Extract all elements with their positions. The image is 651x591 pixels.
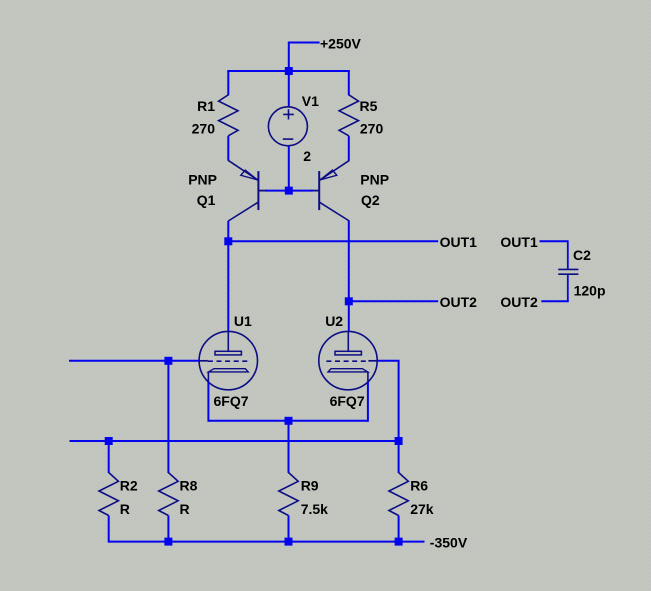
resistor R8 (159, 473, 178, 516)
node junction bottom rail / R9 (285, 538, 293, 546)
wire R5 bottom lead (348, 136, 350, 161)
triode U1 (199, 331, 257, 389)
svg-text:OUT1: OUT1 (440, 234, 478, 250)
svg-text:+250V: +250V (320, 35, 362, 51)
wire bottom rail (109, 541, 425, 543)
wire OUT1 rail (228, 240, 438, 242)
node junction bottom rail / R8 (164, 538, 172, 546)
wire V1 top lead (288, 71, 290, 108)
wire cathode rail (208, 420, 368, 422)
transistor Q2 (311, 160, 349, 221)
svg-text:Q2: Q2 (361, 192, 380, 208)
capacitor C2 top lead (567, 240, 569, 268)
node junction bottom rail / R6 (395, 538, 403, 546)
wire U2 grid lead (377, 360, 398, 442)
svg-text:120p: 120p (574, 283, 606, 299)
wire V1 bottom lead (288, 146, 290, 191)
svg-text:OUT2: OUT2 (500, 294, 538, 310)
svg-text:PNP: PNP (360, 171, 389, 187)
node junction middle rail / R6 (395, 437, 403, 445)
resistor R6 (389, 473, 408, 516)
capacitor C2 (558, 269, 578, 274)
wire R6 top lead (398, 441, 400, 473)
wire U1 anode lead (227, 241, 229, 332)
svg-text:U1: U1 (234, 313, 252, 329)
svg-text:R5: R5 (360, 98, 378, 114)
wire R8 top lead (167, 361, 169, 473)
svg-text:R: R (180, 501, 190, 517)
wire OUT1 to C2 (540, 240, 568, 242)
svg-text:OUT2: OUT2 (440, 294, 478, 310)
wire R1 top lead (227, 71, 229, 95)
wire base rail Q1-V1-Q2 (265, 190, 313, 192)
transistor Q1 emitter arrow (241, 170, 257, 180)
wire R9 bottom lead (288, 516, 290, 542)
svg-text:R1: R1 (197, 98, 215, 114)
wire U1 cathode lead (207, 382, 209, 422)
resistor R5 (339, 95, 358, 136)
svg-text:R8: R8 (180, 478, 198, 494)
svg-text:6FQ7: 6FQ7 (330, 393, 365, 409)
wire top rail (227, 70, 349, 72)
node +250V wire stub (289, 42, 320, 72)
svg-text:270: 270 (192, 121, 216, 137)
wire R9 top lead (288, 421, 290, 473)
wire R2 bottom lead (108, 516, 110, 543)
wire R2 top lead (108, 441, 110, 473)
svg-text:7.5k: 7.5k (301, 501, 328, 517)
resistor R1 (219, 95, 238, 136)
svg-text:6FQ7: 6FQ7 (214, 393, 249, 409)
svg-text:V1: V1 (302, 93, 319, 109)
capacitor C2 bottom lead (567, 275, 569, 301)
voltage source V1 (268, 107, 307, 146)
svg-text:R2: R2 (120, 478, 138, 494)
svg-text:C2: C2 (573, 247, 591, 263)
wire C2 to OUT2 (541, 300, 569, 302)
wire grid rail to U1 (69, 360, 199, 362)
wire R1 bottom lead (227, 136, 229, 161)
node junction grid rail / R8 (164, 357, 172, 365)
node junction Q2 collector / OUT2 / U2 anode (345, 297, 353, 305)
wire R5 top lead (348, 71, 350, 95)
resistor R2 (99, 473, 118, 516)
svg-text:R: R (120, 501, 130, 517)
svg-text:Q1: Q1 (197, 192, 216, 208)
svg-text:2: 2 (303, 148, 311, 164)
svg-text:-350V: -350V (430, 534, 468, 550)
node junction middle rail / R2 (105, 437, 113, 445)
svg-text:R9: R9 (301, 478, 319, 494)
wire middle rail (70, 440, 399, 442)
transistor Q1 (228, 160, 266, 221)
node junction cathodes / R9 (285, 417, 293, 425)
svg-text:U2: U2 (325, 313, 343, 329)
wire U2 cathode lead (367, 382, 369, 422)
svg-text:PNP: PNP (188, 171, 217, 187)
svg-text:270: 270 (360, 121, 384, 137)
wire Q2 collector drop (348, 221, 350, 302)
svg-text:27k: 27k (410, 501, 434, 517)
wire Q1 collector drop (227, 221, 229, 242)
node junction Q1 collector / OUT1 / U1 anode (224, 237, 232, 245)
wire U2 anode lead (348, 301, 350, 332)
node junction bases to V1 minus (285, 187, 293, 195)
wire OUT2 rail (349, 300, 438, 302)
triode U2 (319, 331, 377, 389)
node junction at V1 top (285, 67, 293, 75)
wire R8 bottom lead (167, 516, 169, 542)
svg-text:OUT1: OUT1 (500, 234, 538, 250)
wire R6 bottom lead (398, 516, 400, 542)
svg-text:R6: R6 (410, 478, 428, 494)
transistor Q2 emitter arrow (320, 170, 337, 180)
resistor R9 (279, 473, 298, 516)
